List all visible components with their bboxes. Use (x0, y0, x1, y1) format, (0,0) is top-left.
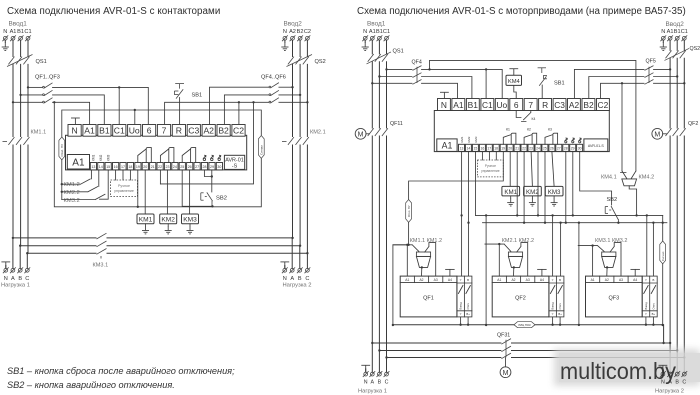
svg-text:30: 30 (217, 165, 221, 169)
svg-text:28: 28 (203, 165, 207, 169)
wire terminal 26 to coil KM3 right (552, 151, 554, 186)
svg-text:A1: A1 (405, 278, 409, 282)
svg-text:C1: C1 (383, 29, 390, 35)
svg-text:A1: A1 (591, 278, 595, 282)
wires to QS2 right (670, 40, 684, 50)
svg-text:КМ2.2: КМ2.2 (64, 190, 80, 196)
svg-text:B+: B+ (466, 312, 470, 316)
svg-text:B: B (298, 276, 302, 282)
load 1 drops (13, 238, 27, 269)
wire QF6 to C2 rail (279, 101, 308, 103)
svg-text:KM3: KM3 (183, 217, 197, 224)
input1 terminals (2, 35, 8, 41)
wires columns to bus QF3 (646, 317, 654, 325)
common line upper right-schematic (476, 214, 663, 216)
wire A1 riser QF3 (592, 246, 594, 277)
svg-text:Y: Y (460, 278, 462, 282)
coil KM3 right (545, 186, 563, 196)
coil KM2 right (524, 186, 542, 196)
svg-text:QF11: QF11 (390, 121, 403, 127)
wire QF4 bottom out to A1 cell (422, 83, 458, 98)
svg-text:14: 14 (467, 147, 471, 151)
wire branch to KM4.2 line (430, 60, 636, 171)
load 2 neutral T (280, 262, 289, 269)
svg-text:Нагрузка 2: Нагрузка 2 (655, 389, 684, 395)
node C2 cell drop (238, 101, 240, 103)
node C1 tap (27, 86, 29, 88)
svg-text:19: 19 (501, 147, 505, 151)
svg-text:30: 30 (578, 147, 582, 151)
control columns QF3 (642, 276, 657, 317)
load 1 right-schematic terminals (363, 371, 369, 377)
wire C1 cell drop right (485, 69, 487, 98)
input2 right N ground (662, 40, 664, 42)
wire actuator to A2 QF2 (513, 267, 515, 276)
svg-text:КМ3: КМ3 (106, 154, 110, 161)
svg-text:C1: C1 (114, 126, 125, 136)
manual control dotted box (111, 180, 138, 197)
svg-text:КМ3.1 КМ3.2: КМ3.1 КМ3.2 (595, 238, 627, 244)
load 2 right-schematic terminals (660, 371, 666, 377)
rotated pin labels over terminals 13-15 (92, 154, 111, 161)
svg-text:Нагрузка 1: Нагрузка 1 (1, 282, 30, 288)
svg-text:R: R (542, 100, 548, 110)
svg-text:A1: A1 (667, 29, 674, 35)
svg-text:multicom.by: multicom.by (560, 358, 676, 384)
node B1 tap right (378, 75, 380, 77)
motor M1 left (355, 128, 366, 139)
input1 terminal labels N A1 B1 C1 (3, 29, 31, 35)
manual control dotted box right (478, 160, 504, 177)
relay top terminal row (68, 125, 245, 137)
svg-text:КМ1.1: КМ1.1 (31, 130, 47, 136)
svg-text:B2: B2 (583, 100, 594, 110)
svg-text:AVR-01-S: AVR-01-S (588, 144, 605, 148)
wire B2 cell to QF5 (224, 95, 269, 125)
bus line phase A (13, 237, 293, 239)
wire C1 phase line to QF1 (28, 86, 43, 88)
device type box AVR-01-S (224, 155, 244, 169)
load 2 drops (292, 238, 307, 269)
contact KM3.2 (610, 243, 621, 277)
motor M bus-tie (505, 358, 507, 367)
pushbutton SB2 (201, 192, 213, 206)
svg-text:SB1: SB1 (554, 81, 565, 87)
svg-text:23: 23 (529, 147, 533, 151)
svg-text:25: 25 (543, 147, 547, 151)
svg-text:14: 14 (99, 165, 103, 169)
relay contact K3 over terminals 25-27 (182, 148, 196, 163)
svg-text:20: 20 (508, 147, 512, 151)
relay bottom terminal row right (459, 144, 583, 151)
relay unit A1 outer box (66, 135, 247, 170)
wire terminal 22 to sense link (159, 170, 161, 184)
device type label right (584, 139, 608, 152)
svg-text:Нагрузка 2: Нагрузка 2 (283, 282, 312, 288)
svg-text:SB2 – кнопка аварийного отключ: SB2 – кнопка аварийного отключения. (7, 380, 175, 390)
svg-text:QS2: QS2 (690, 46, 700, 52)
indicator marks over terminals 28-30 (203, 155, 206, 160)
wire terminal 19 to pill feed (409, 151, 504, 200)
svg-text:B: B (467, 278, 469, 282)
breaker box QF3 (586, 276, 643, 317)
wire terminal 24 drop (537, 151, 539, 215)
svg-text:управление: управление (481, 169, 500, 173)
coil KM2 (160, 214, 177, 224)
wires terminals 16-18 to manual control (116, 170, 131, 180)
wire A2 B2 C2 cells to QF5 (574, 69, 644, 98)
svg-text:C2: C2 (304, 29, 311, 35)
svg-text:КМ2: КМ2 (99, 154, 103, 161)
svg-text:Откл.: Откл. (558, 303, 562, 310)
contact KM2.2 (517, 243, 528, 277)
svg-text:QS2: QS2 (315, 59, 326, 65)
svg-text:A: A (371, 379, 375, 385)
relay contact K2 over terminals 22-24 (160, 148, 174, 163)
svg-text:7: 7 (528, 100, 533, 110)
svg-text:19: 19 (136, 165, 140, 169)
svg-text:QF1: QF1 (423, 296, 434, 302)
svg-text:Взвод: Взвод (551, 302, 555, 310)
svg-text:22: 22 (522, 147, 526, 151)
load 2 right-schematic drops (670, 343, 684, 372)
wire terminal 21 drop (516, 151, 518, 215)
wire terminal 19 to common (137, 170, 139, 207)
load 1 neutral T (1, 262, 10, 269)
contact KM2.1 (485, 244, 511, 251)
input2 N ground (284, 40, 286, 42)
wire QF4 to A2 rail (279, 86, 293, 88)
svg-text:KM1: KM1 (504, 189, 517, 196)
load 1 right-schematic drops (372, 343, 386, 372)
wire N stub (13, 40, 28, 56)
svg-text:КМ2: КМ2 (467, 136, 471, 142)
svg-text:Ручное: Ручное (485, 164, 496, 168)
svg-text:22: 22 (158, 165, 162, 169)
svg-text:28: 28 (564, 147, 568, 151)
pill marker left (59, 137, 65, 160)
wire terminal 20 to coil KM1 (144, 170, 146, 214)
wires to QS1 right (372, 40, 386, 54)
svg-text:A1: A1 (72, 158, 85, 169)
svg-text:26: 26 (550, 147, 554, 151)
svg-text:13: 13 (91, 165, 95, 169)
rails KM2.1 to bus (293, 145, 308, 253)
wires columns to bus QF1 (461, 317, 469, 325)
input1 N ground (4, 40, 6, 42)
svg-text:QF1..QF3: QF1..QF3 (35, 75, 60, 81)
input1 right terminal labels (363, 29, 390, 35)
wire terminal 29 to common upper (572, 151, 574, 215)
svg-text:A1: A1 (497, 278, 501, 282)
svg-text:6: 6 (147, 126, 152, 136)
svg-text:A2: A2 (569, 100, 580, 110)
wire terminal 26 to coil KM3 (189, 170, 191, 214)
wire QF1 out to C1 cell and 6 (53, 87, 149, 124)
relay top terminal row right (438, 99, 610, 111)
svg-text:C3: C3 (188, 126, 199, 136)
drive actuator QF3 (602, 252, 616, 267)
contact K4 under terminals 6-7 (516, 111, 531, 122)
node C1 cell drop (118, 86, 120, 88)
rails KM1.1 to bus (13, 145, 28, 253)
relay unit right outer box (434, 111, 609, 152)
svg-text:Y: Y (552, 278, 554, 282)
wire terminal 23 to coil KM2 (166, 170, 168, 214)
svg-text:N: N (363, 29, 367, 35)
load 1 right-schematic neutral T (361, 365, 370, 372)
wire SB1 to R cell right (541, 85, 543, 99)
svg-text:QS1: QS1 (36, 59, 47, 65)
svg-text:A4: A4 (448, 278, 452, 282)
device label box A1 right (437, 139, 457, 152)
wire QF2 out to B1 cell (53, 95, 105, 125)
svg-text:A1: A1 (84, 126, 95, 136)
control columns QF2 (549, 276, 564, 317)
wire terminal 23 to coil KM2 right (531, 151, 532, 186)
svg-text:Сигнал: Сигнал (260, 145, 264, 155)
svg-text:N: N (283, 29, 287, 35)
svg-text:A1: A1 (453, 100, 464, 110)
wire terminal 28 to common lower (565, 151, 567, 222)
svg-text:B+: B+ (558, 312, 562, 316)
svg-text:KM2: KM2 (526, 189, 539, 196)
svg-text:QF3: QF3 (608, 296, 619, 302)
svg-text:Схема подключения AVR-01-S с к: Схема подключения AVR-01-S с контакторам… (7, 6, 220, 17)
wire U-loop left side down and under box (54, 102, 261, 207)
svg-text:Ввод1: Ввод1 (9, 21, 28, 28)
svg-text:KM3: KM3 (548, 189, 561, 196)
svg-text:M: M (654, 132, 660, 139)
svg-text:KM2: KM2 (161, 217, 175, 224)
svg-text:A2: A2 (203, 126, 214, 136)
coil KM3 (182, 214, 199, 224)
load bus C right-schematic (387, 357, 685, 359)
node A1 tap (12, 101, 14, 103)
input1 right terminals (362, 35, 368, 41)
svg-text:КМ3.2: КМ3.2 (64, 198, 80, 204)
svg-text:N: N (441, 100, 447, 110)
wire pill to KM aux contacts (61, 160, 63, 200)
indicator marks over 28-30 right (565, 138, 568, 143)
wire terminals 28-29 loop to SB2 (204, 170, 211, 192)
svg-text:16: 16 (481, 147, 485, 151)
svg-text:17: 17 (487, 147, 491, 151)
svg-text:M: M (503, 370, 509, 377)
pushbutton SB1 (174, 84, 184, 99)
svg-text:Uo: Uo (129, 126, 140, 136)
breaker QF4 (269, 83, 279, 88)
svg-text:C: C (682, 379, 686, 385)
svg-text:SB2: SB2 (216, 196, 227, 202)
svg-text:Откл.: Откл. (652, 303, 656, 310)
svg-text:A1: A1 (442, 141, 453, 151)
svg-text:B1: B1 (674, 29, 681, 35)
svg-text:B1: B1 (376, 29, 383, 35)
input2 right terminals (660, 35, 666, 41)
contactor KM2.1 (282, 137, 309, 145)
svg-text:N: N (4, 276, 8, 282)
svg-text:C1: C1 (482, 100, 493, 110)
svg-text:29: 29 (210, 165, 214, 169)
svg-text:24: 24 (536, 147, 540, 151)
svg-text:AVR-01: AVR-01 (225, 157, 243, 163)
breaker QF1 (43, 83, 53, 88)
wire terminal 25 to SB2 node (182, 170, 212, 206)
svg-text:КМ4.2: КМ4.2 (639, 175, 655, 181)
input2 right terminal labels (661, 29, 688, 35)
node KM4.1 drop (621, 82, 623, 84)
svg-text:23: 23 (166, 165, 170, 169)
svg-text:Y: Y (552, 312, 554, 316)
svg-text:Откл. ПУ: Откл. ПУ (407, 205, 411, 217)
svg-text:SB2: SB2 (607, 197, 618, 203)
pill marker left right-schematic (406, 200, 412, 223)
QS1 right disconnect (367, 52, 392, 64)
svg-text:18: 18 (494, 147, 498, 151)
breaker QF5 (269, 90, 279, 95)
wires input2 to QS2 (293, 40, 308, 56)
svg-text:B: B (675, 379, 679, 385)
wire terminal 30 to SB2 right (580, 151, 612, 205)
relay contact K1 over terminals 19-21 (138, 148, 152, 163)
svg-text:21: 21 (515, 147, 519, 151)
svg-text:20: 20 (143, 165, 147, 169)
coil KM1 right (502, 186, 520, 196)
svg-text:B: B (559, 278, 561, 282)
node A2 rail (291, 86, 293, 88)
svg-text:QF2: QF2 (688, 121, 698, 127)
relay bottom terminal row (90, 163, 222, 170)
svg-text:15: 15 (106, 165, 110, 169)
svg-text:Y: Y (460, 312, 462, 316)
T terminator over N cell right (440, 92, 449, 99)
wire QF3 out to A1 cell (53, 102, 90, 124)
svg-text:15: 15 (474, 147, 478, 151)
svg-text:7: 7 (162, 126, 167, 136)
svg-text:C: C (385, 379, 389, 385)
svg-text:N: N (364, 379, 368, 385)
wire B1 phase line to QF2 (21, 94, 43, 96)
svg-text:A3: A3 (434, 278, 438, 282)
wire QF4 mid out to B1 cell (422, 77, 472, 99)
wire terminal 25 drop (544, 151, 546, 222)
svg-text:29: 29 (571, 147, 575, 151)
watermark panel (554, 349, 700, 386)
wire aux drop to terminal 22 link (160, 102, 253, 184)
QS2 disconnect switch (287, 55, 313, 67)
svg-text:A1: A1 (10, 29, 17, 35)
input1 right N ground (364, 40, 366, 42)
T terminator over N cell (71, 118, 80, 125)
node U-wire tap on A1 line (53, 101, 55, 103)
svg-text:К3: К3 (548, 128, 552, 132)
svg-text:26: 26 (188, 165, 192, 169)
svg-text:N: N (71, 126, 77, 136)
rails QS1 right down to QF11 (372, 62, 386, 128)
coil KM4 (509, 69, 518, 76)
load 2 terminals (282, 267, 288, 273)
wire to KM4.1 contact (621, 83, 623, 171)
node C2 rail (306, 101, 308, 103)
input2 terminals (282, 35, 288, 41)
device label box A1 (67, 155, 89, 170)
wire pill down to QF1 feed (408, 222, 410, 245)
svg-text:B+: B+ (652, 312, 656, 316)
node B1 tap (19, 94, 21, 96)
wire C2 cell drop (238, 102, 240, 124)
T terminator A4 QF1 (446, 269, 455, 276)
wire QF4 top out with branch node (422, 69, 503, 98)
load 1 terminals (3, 267, 9, 273)
wire terminal 15 to common upper (475, 151, 477, 215)
rails QS2 right down to QF2 (670, 58, 684, 128)
svg-text:QF4..QF6: QF4..QF6 (261, 75, 286, 81)
svg-text:B: B (18, 276, 22, 282)
input2 terminal labels N A2 B2 C2 (283, 29, 311, 35)
svg-text:КМ1.2: КМ1.2 (64, 182, 80, 188)
breaker QF6 (269, 98, 279, 103)
svg-text:21: 21 (151, 165, 155, 169)
svg-text:КМ1.1 КМ1.2: КМ1.1 КМ1.2 (410, 238, 442, 244)
svg-text:16: 16 (114, 165, 118, 169)
node Uo drop (134, 109, 136, 111)
pill marker right (258, 136, 264, 159)
svg-text:13: 13 (460, 147, 464, 151)
svg-text:B1: B1 (17, 29, 24, 35)
pushbutton SB1 right (538, 68, 547, 86)
svg-text:Uo: Uo (496, 100, 507, 110)
svg-text:QF2: QF2 (515, 296, 526, 302)
svg-text:C2: C2 (598, 100, 609, 110)
svg-text:N: N (661, 29, 665, 35)
svg-text:КМ4.1: КМ4.1 (601, 175, 617, 181)
bus line phase C (27, 252, 307, 254)
wire 7 and C2 sense line to QF6 (165, 102, 269, 124)
wire A1 riser QF1 (406, 245, 408, 276)
svg-text:SB1: SB1 (192, 93, 203, 99)
svg-text:24: 24 (173, 165, 177, 169)
svg-text:Y: Y (645, 278, 647, 282)
svg-text:A2: A2 (605, 278, 609, 282)
svg-text:18: 18 (128, 165, 132, 169)
wire right pill down to bus (662, 264, 664, 325)
svg-text:Ввод1: Ввод1 (367, 21, 386, 28)
T terminator A4 QF2 (538, 269, 547, 276)
wire actuator to A2 QF1 (421, 267, 423, 276)
rails QF2 down to load bus right (670, 136, 684, 357)
node aux drop on sense line (252, 101, 254, 103)
svg-text:КМ2.1 КМ2.2: КМ2.1 КМ2.2 (502, 238, 534, 244)
wire SB1 to R cell (179, 98, 181, 125)
wire KM4 contacts to common line (629, 186, 636, 216)
wire A1 phase line to QF3 (13, 101, 43, 103)
svg-text:B1: B1 (99, 126, 110, 136)
svg-text:A2: A2 (419, 278, 423, 282)
svg-text:6: 6 (514, 100, 519, 110)
svg-text:C3: C3 (554, 100, 565, 110)
svg-text:C: C (305, 276, 309, 282)
drive actuator QF1 (416, 252, 430, 267)
wire common to QF3 columns (646, 215, 648, 276)
wire A2 cell to QF4 (210, 87, 269, 124)
svg-text:KM4: KM4 (508, 79, 521, 85)
contact KM1.1 (393, 245, 419, 252)
svg-text:B1: B1 (468, 100, 479, 110)
svg-text:Откл.: Откл. (466, 303, 470, 310)
wire QF1 assembly feed to bus (393, 245, 409, 325)
svg-text:C1: C1 (24, 29, 31, 35)
